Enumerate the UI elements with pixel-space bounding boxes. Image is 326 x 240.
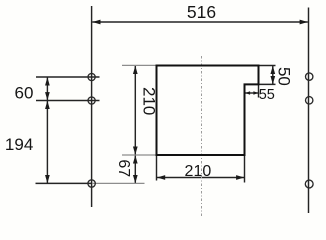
svg-text:55: 55 (259, 87, 275, 103)
svg-text:194: 194 (5, 135, 33, 154)
svg-text:210: 210 (185, 163, 212, 180)
svg-text:60: 60 (15, 84, 34, 103)
svg-text:210: 210 (140, 87, 159, 115)
svg-text:67: 67 (115, 159, 132, 177)
svg-text:516: 516 (187, 2, 216, 22)
svg-text:50: 50 (274, 67, 293, 86)
